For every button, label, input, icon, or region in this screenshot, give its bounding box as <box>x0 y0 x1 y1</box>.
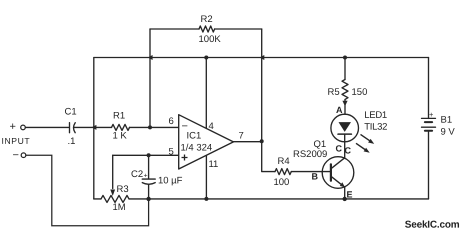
wire LED cathode to transistor collector <box>344 134 346 158</box>
svg-text:RS2009: RS2009 <box>293 149 327 160</box>
battery B1 short plate bottom <box>425 130 432 132</box>
svg-text:C1: C1 <box>64 106 76 117</box>
LED1 circle <box>331 114 359 142</box>
svg-text:INPUT: INPUT <box>1 136 30 146</box>
input + terminal circle <box>21 125 26 130</box>
wire R4 to transistor base <box>291 171 330 173</box>
svg-text:B1: B1 <box>440 115 452 126</box>
svg-text:LED1: LED1 <box>364 110 387 121</box>
battery B1 short plate <box>425 121 432 123</box>
battery B1 long plate top <box>422 117 436 119</box>
resistor R4 zigzag <box>275 169 291 175</box>
emitter arrowhead <box>340 182 345 187</box>
R3 wiper arrowhead <box>110 190 115 197</box>
wire: bottom line y=199 from R3 corner to battery <box>94 198 101 200</box>
svg-text:B: B <box>311 172 318 182</box>
svg-text:10 µF: 10 µF <box>158 175 183 186</box>
capacitor C2 curved bottom plate <box>142 183 155 185</box>
junction dot R1 right node <box>148 125 152 129</box>
resistor R2 top wire <box>150 28 199 30</box>
svg-text:R4: R4 <box>277 156 289 167</box>
LED cathode bar <box>338 133 351 135</box>
svg-text:R2: R2 <box>201 14 213 25</box>
junction dot emitter bottom <box>343 197 347 201</box>
capacitor C2 top lead <box>148 155 150 178</box>
crossing arrow artifact rail x150 <box>148 55 153 60</box>
resistor R1 zigzag <box>112 124 130 130</box>
wire R5 to LED anode <box>344 100 346 115</box>
input - terminal circle <box>21 153 26 158</box>
LED light arrow 2 <box>356 143 366 150</box>
svg-text:TIL32: TIL32 <box>364 122 387 133</box>
svg-text:C2: C2 <box>131 169 143 180</box>
wire output node down to R4 <box>262 141 275 171</box>
LED light arrow 1 <box>361 134 371 141</box>
wire R2 right top <box>215 28 262 30</box>
junction dot C2 bottom R3 <box>146 197 150 201</box>
svg-text:E: E <box>346 190 352 200</box>
battery B1 long plate <box>422 126 436 128</box>
input + terminal wire to C1 <box>25 126 68 128</box>
resistor R5 zigzag <box>342 80 348 100</box>
wire R1 to op-amp pin6 <box>130 126 179 128</box>
wire emitter down to bottom line <box>344 187 346 199</box>
junction dot pin5 C2 <box>147 153 151 157</box>
resistor R2 zigzag <box>199 26 215 32</box>
svg-text:9 V: 9 V <box>440 127 455 138</box>
crossing arrow artifact rail x262 <box>260 55 265 60</box>
svg-text:C: C <box>335 144 342 154</box>
wire - input down and along bottom <box>26 155 149 226</box>
svg-text:−: − <box>12 149 18 161</box>
wire R2 right vertical down to output node <box>261 29 263 141</box>
wire op-amp pin11 to bottom line <box>205 155 207 199</box>
transistor base bar <box>330 164 332 180</box>
svg-text:+: + <box>144 173 148 180</box>
transistor Q1 circle <box>322 157 354 189</box>
wire: battery right vertical bottom <box>428 131 430 199</box>
wire R3 wiper vertical <box>112 155 114 188</box>
wire rail to R5 <box>344 58 346 80</box>
wire: left vertical from rail down to R3 line <box>93 58 95 199</box>
svg-text:+: + <box>181 150 188 164</box>
svg-text:1 K: 1 K <box>112 130 127 141</box>
wire: top supply rail <box>94 57 429 59</box>
svg-text:100K: 100K <box>199 34 222 45</box>
svg-text:IC1: IC1 <box>186 130 201 141</box>
wire pin5 line <box>113 154 179 156</box>
capacitor C2 bottom lead <box>148 184 150 199</box>
svg-text:11: 11 <box>208 159 218 170</box>
wire op-amp output pin7 <box>233 141 261 143</box>
svg-text:SeekIC.com: SeekIC.com <box>405 220 460 231</box>
svg-text:5: 5 <box>168 146 173 157</box>
transistor emitter line <box>331 176 345 187</box>
svg-text:1M: 1M <box>112 202 125 213</box>
svg-text:150: 150 <box>352 87 368 98</box>
junction dot output node <box>260 139 264 143</box>
junction dot rail pin4 <box>204 56 208 60</box>
svg-text:100: 100 <box>273 177 289 188</box>
svg-text:7: 7 <box>238 131 243 142</box>
svg-text:4: 4 <box>208 121 213 132</box>
svg-text:R1: R1 <box>113 110 125 121</box>
resistor R3 zigzag <box>101 195 129 202</box>
LED anode arrowhead <box>342 101 347 107</box>
junction dot rail R5 <box>343 56 347 60</box>
LED triangle symbol <box>339 122 352 132</box>
capacitor C1 left plate <box>69 123 71 133</box>
transistor collector line <box>331 158 345 169</box>
svg-text:+: + <box>429 110 434 119</box>
svg-text:R5: R5 <box>328 87 340 98</box>
svg-text:A: A <box>336 105 343 115</box>
resistor R2 loop left vertical <box>149 29 151 127</box>
svg-text:6: 6 <box>168 116 173 127</box>
svg-text:R3: R3 <box>116 184 128 195</box>
junction dot pin11 bottom <box>204 197 208 201</box>
svg-text:+: + <box>9 121 15 133</box>
capacitor C1 right curved plate <box>74 123 76 133</box>
crossing arrow artifact at C1-R1 vertical <box>92 125 97 130</box>
wire: R3 right to battery along y=199 <box>129 198 429 200</box>
wire C1 to R1 <box>74 126 112 128</box>
svg-text:.1: .1 <box>67 136 75 147</box>
capacitor C2 top plate <box>142 178 155 180</box>
svg-text:C: C <box>344 146 351 156</box>
wire op-amp pin4 to rail <box>205 58 207 129</box>
wire: battery right vertical top <box>428 58 430 119</box>
op-amp U1 triangle <box>179 115 234 169</box>
